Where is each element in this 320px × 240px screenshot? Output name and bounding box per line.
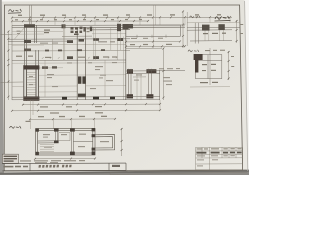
tick slash row y57-59 — [42, 57, 118, 59]
vertical extension lines below plan — [31, 100, 161, 118]
lower plan stair treads — [40, 144, 54, 151]
detail B lower dim line — [190, 86, 230, 88]
horizontal interior line y39 — [8, 39, 130, 42]
right margin number specks — [231, 24, 243, 67]
lower plan piers — [36, 128, 96, 155]
bottom wall lines — [12, 97, 160, 100]
wall line y44.5 — [8, 43, 126, 45]
dimension numbers (speckles) — [15, 14, 221, 20]
top dimension line — [12, 16, 232, 18]
drawing frame border — [4, 5, 242, 171]
bottom strip lines — [2, 163, 126, 171]
right vertical dim x208/213 between plan and details — [209, 48, 211, 85]
rows below frame to paper edge — [110, 170, 247, 175]
dimension rows y46-48 mid right — [126, 46, 185, 48]
lower plan inner box — [59, 133, 70, 141]
dense detail cluster upper-middle — [71, 27, 86, 35]
bottom wall dashes — [62, 97, 115, 100]
lower plan top dimension — [30, 118, 116, 120]
title text ZAWALONY DOM — [38, 165, 71, 168]
inter-pier dim marks — [133, 76, 146, 78]
left scan edge band — [0, 0, 4, 175]
bottom strip row texts — [3, 166, 28, 168]
dashes right of stair top band — [42, 66, 57, 69]
upper slab rectangle (right) — [126, 25, 181, 36]
title block texts — [197, 148, 242, 149]
right dim vertical x163 with ticks — [162, 48, 164, 100]
lower plan bottom dim — [35, 158, 95, 160]
dimension chain below plan — [12, 104, 160, 111]
stamp box — [2, 154, 18, 163]
extension pair x30 from frame — [30, 5, 32, 27]
left outer wall — [11, 25, 13, 100]
stair corridor dark walls — [24, 65, 39, 101]
lower plan internal walls — [38, 129, 93, 155]
room text speckles row y42 — [40, 41, 115, 43]
left vertical dimension chain — [1, 32, 24, 101]
dimension under slab — [126, 41, 180, 43]
detail B number specks — [205, 50, 225, 51]
lower right piers — [127, 94, 154, 98]
door swing diagonal — [14, 28, 24, 39]
detail B dim line — [228, 51, 230, 80]
right paper edge line — [245, 1, 248, 171]
top wall piers (dark) — [24, 24, 133, 31]
mid band piers right section y69-74 — [127, 69, 156, 74]
label Rys 6 — [188, 50, 199, 52]
wall line y50 with dashes — [12, 50, 130, 52]
right wall of plan — [125, 27, 127, 100]
detail B drawing — [195, 55, 221, 79]
dimension ticks top — [11, 16, 231, 22]
wall vertical double lines top-left — [24, 25, 38, 66]
extension drops from dim line to plan — [12, 5, 230, 48]
long extension x153 — [153, 5, 155, 48]
pier cluster mid — [78, 76, 86, 97]
paper sheet — [2, 0, 248, 174]
extension verticals — [31, 119, 95, 130]
piers on line y39 — [24, 38, 123, 43]
dim speck — [26, 121, 31, 122]
stair treads — [27, 72, 36, 94]
lower plan right dim vertical — [121, 128, 123, 156]
label Rys 1 (top-left) — [8, 9, 22, 13]
right vertical dimension chain x183 — [182, 11, 184, 48]
lower plan outline — [36, 129, 115, 155]
label Rys 2 — [10, 126, 22, 128]
detail A drawing — [187, 23, 240, 44]
secondary dimension line — [12, 20, 148, 22]
bottom scan edge band — [0, 170, 249, 175]
detail A dim line — [236, 20, 238, 43]
interior verticals faint — [45, 25, 141, 100]
lower right wall verticals — [129, 69, 160, 100]
mid dimension row y56-59 piers — [67, 56, 99, 59]
corridor double wall x77/x85 — [77, 27, 85, 100]
faint notes right of stamp — [20, 160, 85, 163]
faint interior horizontals upper band — [12, 31, 126, 92]
scan background — [0, 0, 249, 175]
slab number specks — [131, 38, 163, 39]
second vertical dim x187 — [186, 12, 188, 46]
slab bottom ticks — [137, 35, 166, 38]
label Rys 5 — [215, 16, 231, 21]
outer top wall lines — [12, 25, 185, 30]
lower plan room speckles — [43, 134, 109, 148]
room speckle texts — [29, 62, 172, 89]
slab left pier — [123, 24, 129, 29]
scale 1:50 — [112, 165, 120, 167]
label Rys 4 — [190, 16, 201, 18]
